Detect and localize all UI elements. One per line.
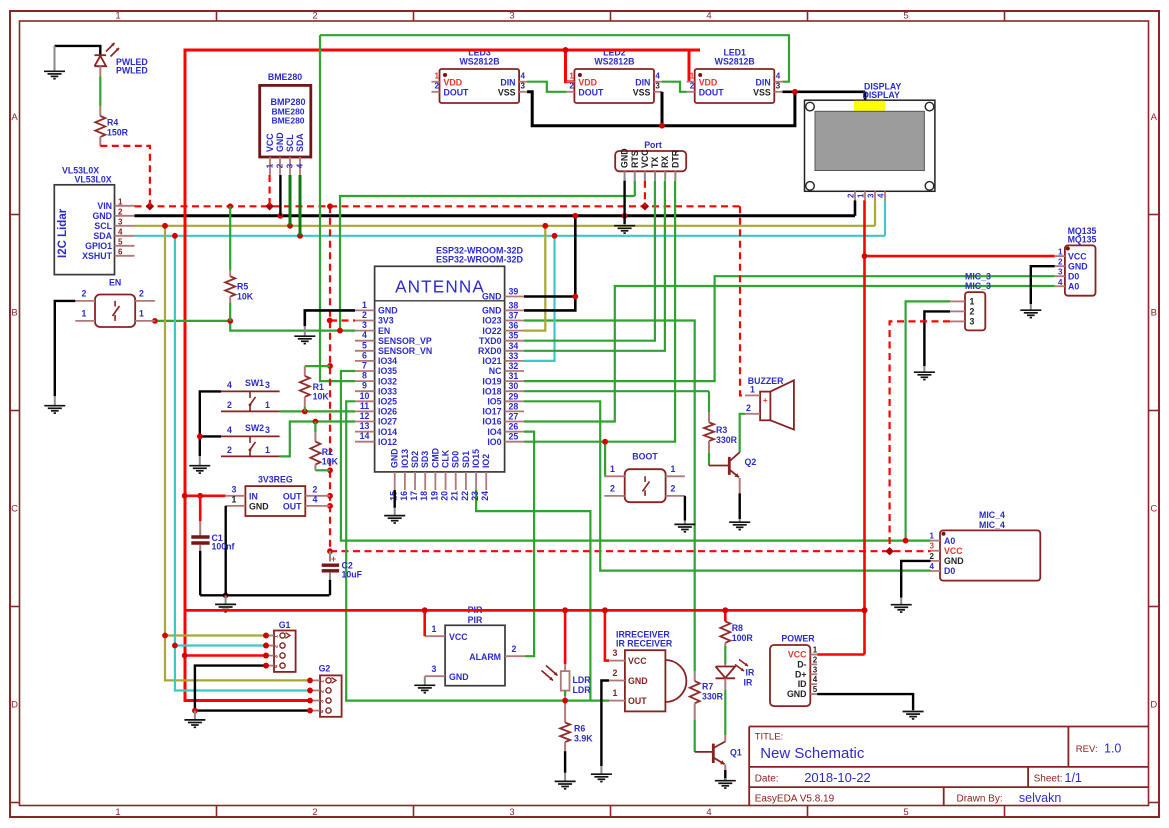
svg-text:1: 1 <box>690 72 695 81</box>
svg-text:VCC: VCC <box>628 656 647 666</box>
svg-text:IO27: IO27 <box>378 417 397 427</box>
wire black POWER GND to ground <box>817 694 913 710</box>
svg-text:330R: 330R <box>716 435 738 445</box>
svg-text:GND: GND <box>1068 261 1088 271</box>
svg-text:1: 1 <box>232 495 237 505</box>
svg-text:IO4: IO4 <box>487 427 501 437</box>
svg-text:C: C <box>1150 504 1157 515</box>
wire green IO25 to LDR node <box>346 401 609 700</box>
svg-text:SCL: SCL <box>285 134 295 152</box>
resistor R2 10K <box>314 422 316 433</box>
svg-text:34: 34 <box>509 341 519 351</box>
svg-text:BOOT: BOOT <box>632 452 658 462</box>
svg-text:A0: A0 <box>1068 281 1079 291</box>
svg-text:DTR: DTR <box>670 149 680 168</box>
wire dashed R4 to VCC bus <box>100 146 150 206</box>
svg-text:SD0: SD0 <box>451 451 461 468</box>
svg-text:3: 3 <box>118 217 123 226</box>
svg-text:10K: 10K <box>322 457 339 467</box>
svg-text:6: 6 <box>362 350 367 360</box>
wire PWLED to R4 <box>99 76 101 106</box>
wire olive SCL to IO22 <box>524 226 545 331</box>
wire green IO18 to R3 <box>524 390 709 392</box>
svg-text:XSHUT: XSHUT <box>82 251 112 261</box>
svg-text:New Schematic: New Schematic <box>760 745 865 762</box>
svg-text:3: 3 <box>970 316 975 326</box>
ground PIR GND <box>424 676 426 685</box>
svg-text:32: 32 <box>509 361 519 371</box>
svg-text:2: 2 <box>690 82 695 91</box>
wire olive to G connectors <box>165 226 310 681</box>
svg-text:1: 1 <box>139 309 144 319</box>
svg-text:NC: NC <box>489 366 502 376</box>
svg-text:B: B <box>11 308 17 319</box>
svg-text:ESP32-WROOM-32D: ESP32-WROOM-32D <box>436 255 524 265</box>
svg-text:1: 1 <box>266 163 275 168</box>
svg-text:IO12: IO12 <box>378 437 397 447</box>
wire black G1 pin4 to G2 pin4 and ground <box>195 666 310 711</box>
svg-text:9: 9 <box>362 381 367 391</box>
svg-text:VCC: VCC <box>788 650 807 660</box>
svg-text:13: 13 <box>360 421 370 431</box>
wire green Port RX to RXD0 <box>524 181 665 351</box>
wire green IO5 to MIC_4 D0 <box>524 401 931 570</box>
svg-text:4: 4 <box>776 72 781 81</box>
wire green BOOT pin1 drop <box>604 442 606 477</box>
svg-text:ID: ID <box>798 679 807 689</box>
wire ESP pin15 GND to ground <box>394 490 396 508</box>
svg-text:3: 3 <box>930 542 935 551</box>
wire SDA cyan bus <box>135 235 886 237</box>
ESP32 pin 35 TXD0 <box>505 340 524 342</box>
wire dashed 3V3 horizontal to MIC_4 VCC <box>330 550 931 552</box>
svg-text:3: 3 <box>432 664 437 674</box>
svg-text:SD2: SD2 <box>410 451 420 468</box>
svg-text:SDA: SDA <box>295 133 305 152</box>
ESP32 pin 9 IO33 <box>355 390 375 392</box>
resistor R1 10K <box>305 365 330 367</box>
svg-text:D: D <box>1150 700 1157 711</box>
wire dashed 3V3 vertical x330 <box>329 206 331 551</box>
svg-text:PWLED: PWLED <box>116 66 148 76</box>
wire green LED3 DIN to LED2 DOUT <box>527 82 566 92</box>
svg-text:38: 38 <box>509 300 519 310</box>
svg-text:2: 2 <box>613 668 618 678</box>
photoresistor LDR <box>561 671 570 691</box>
svg-text:20: 20 <box>440 491 450 501</box>
svg-text:3: 3 <box>867 193 876 198</box>
svg-text:IO15: IO15 <box>471 449 481 468</box>
svg-text:G2: G2 <box>319 664 331 674</box>
wire green IO15 to IR OUT net <box>476 490 590 701</box>
svg-text:4: 4 <box>706 807 711 818</box>
svg-text:IO19: IO19 <box>482 376 501 386</box>
svg-text:19: 19 <box>429 491 439 501</box>
resistor R8 100R <box>724 610 727 621</box>
svg-text:330R: 330R <box>702 692 724 702</box>
ESP32 pin 22 SD1 <box>465 472 467 490</box>
svg-text:2: 2 <box>1058 258 1063 267</box>
svg-text:2: 2 <box>227 400 232 410</box>
svg-text:SDA: SDA <box>93 231 112 241</box>
svg-text:EN: EN <box>109 278 121 288</box>
svg-text:24: 24 <box>480 491 490 501</box>
svg-text:36: 36 <box>509 321 519 331</box>
svg-text:3: 3 <box>286 163 295 168</box>
svg-text:33: 33 <box>509 351 519 361</box>
wire BME280 GND <box>279 175 281 216</box>
svg-text:GND: GND <box>378 306 398 316</box>
svg-text:WS2812B: WS2812B <box>594 56 634 66</box>
svg-text:1: 1 <box>435 72 440 81</box>
wire green IO23 to R7 <box>524 321 695 672</box>
svg-text:WS2812B: WS2812B <box>459 56 499 66</box>
ESP32 pin 37 IO23 <box>505 320 524 322</box>
wire green MQ135 D0 to IO19 <box>524 276 1055 381</box>
svg-text:12: 12 <box>360 411 370 421</box>
wire black MQ135 GND to ground <box>1031 266 1055 304</box>
svg-text:IR: IR <box>746 668 755 678</box>
svg-text:1: 1 <box>432 624 437 634</box>
wire red branch LED2 VDD <box>566 50 575 82</box>
wire SCL olive bus <box>135 225 876 227</box>
svg-text:2: 2 <box>610 483 615 493</box>
svg-text:D0: D0 <box>944 566 955 576</box>
svg-text:RXD0: RXD0 <box>478 346 502 356</box>
svg-text:VDD: VDD <box>444 77 463 87</box>
ESP32 pin 23 IO15 <box>475 472 477 490</box>
svg-text:RX: RX <box>660 156 670 168</box>
svg-text:IO18: IO18 <box>482 386 501 396</box>
ESP32 pin 18 SD3 <box>424 472 426 490</box>
svg-text:D+: D+ <box>795 669 807 679</box>
svg-text:1: 1 <box>115 11 120 22</box>
svg-text:VCC: VCC <box>265 133 275 152</box>
wire black Q1 emitter to ground <box>724 770 726 780</box>
svg-text:PIR: PIR <box>468 615 483 625</box>
svg-text:2: 2 <box>139 289 144 299</box>
wire green LED2 DIN to LED1 DOUT <box>662 82 687 92</box>
svg-text:2: 2 <box>82 289 87 299</box>
svg-text:2: 2 <box>512 644 517 654</box>
ESP32 pin 27 IO16 <box>505 421 524 423</box>
svg-text:A: A <box>11 112 18 123</box>
svg-text:R8: R8 <box>732 623 743 633</box>
wire red G1 pin3 <box>185 654 266 657</box>
svg-text:3: 3 <box>655 82 660 91</box>
wire black R6 to ground <box>564 751 566 773</box>
LED IR <box>724 664 726 667</box>
wire red horizontal lower rail <box>185 609 865 612</box>
svg-text:22: 22 <box>460 491 470 501</box>
svg-text:IO34: IO34 <box>378 356 397 366</box>
svg-text:DOUT: DOUT <box>578 87 604 97</box>
svg-text:VDD: VDD <box>699 77 718 87</box>
svg-text:2: 2 <box>569 82 574 91</box>
svg-text:1: 1 <box>274 635 280 638</box>
svg-text:SD1: SD1 <box>461 451 471 468</box>
transistor Q2 <box>709 465 729 467</box>
ESP32 pin 10 IO25 <box>355 400 375 402</box>
svg-text:Date:: Date: <box>755 774 779 785</box>
svg-text:4: 4 <box>118 227 123 236</box>
svg-text:BME280: BME280 <box>268 72 302 82</box>
svg-text:6: 6 <box>118 247 123 256</box>
svg-text:3: 3 <box>509 807 514 818</box>
ESP32 pin 32 NC <box>505 370 524 372</box>
svg-text:SENSOR_VN: SENSOR_VN <box>378 346 432 356</box>
svg-text:3: 3 <box>265 425 270 435</box>
svg-text:10uF: 10uF <box>342 570 363 580</box>
svg-text:SCL: SCL <box>94 221 112 231</box>
svg-text:GND: GND <box>482 306 502 316</box>
svg-text:2: 2 <box>276 163 285 168</box>
svg-text:3: 3 <box>613 648 618 658</box>
svg-text:3: 3 <box>320 700 326 703</box>
svg-text:R7: R7 <box>702 682 713 692</box>
svg-text:IR RECEIVER: IR RECEIVER <box>616 638 673 648</box>
svg-text:4: 4 <box>296 163 305 168</box>
wire IR cathode to Q1 <box>724 678 726 690</box>
svg-text:2: 2 <box>320 690 326 693</box>
svg-text:1: 1 <box>671 464 676 474</box>
svg-text:2: 2 <box>118 207 123 216</box>
ESP32 pin 21 SD0 <box>455 472 457 490</box>
wire black ESP GND pins to bus <box>524 295 575 298</box>
wire green LED DIN top <box>320 35 789 81</box>
svg-text:GND: GND <box>449 672 469 682</box>
svg-text:4: 4 <box>706 11 711 22</box>
wire red rail overlay top <box>430 49 700 52</box>
wire dashed VCC to buzzer pin1 <box>740 206 745 395</box>
svg-text:1: 1 <box>970 296 975 306</box>
svg-text:D-: D- <box>797 659 806 669</box>
svg-text:2018-10-22: 2018-10-22 <box>804 770 871 785</box>
svg-text:SD3: SD3 <box>420 451 430 468</box>
svg-text:4: 4 <box>655 72 660 81</box>
ESP32 pin 30 IO18 <box>505 390 524 392</box>
svg-text:4: 4 <box>930 562 935 571</box>
wire cyan display pin4 to SDA bus <box>884 200 886 235</box>
svg-text:DISPLAY: DISPLAY <box>863 90 900 100</box>
svg-text:37: 37 <box>509 311 519 321</box>
svg-text:IO35: IO35 <box>378 366 397 376</box>
svg-text:WS2812B: WS2812B <box>715 56 755 66</box>
wire red rail overlay lower <box>185 609 865 612</box>
svg-text:2: 2 <box>312 11 317 22</box>
svg-text:4: 4 <box>1058 278 1063 287</box>
wire black 3V3REG GND down <box>224 506 226 595</box>
wire BME280 SCL <box>289 175 292 226</box>
wire cyan to G connectors <box>175 236 310 691</box>
wire dashed MIC_3 pin3 to 3V3 <box>890 321 950 551</box>
svg-text:35: 35 <box>509 331 519 341</box>
svg-text:IO21: IO21 <box>482 356 501 366</box>
wire red PIR VCC <box>423 610 426 636</box>
wire red LDR top <box>564 610 567 664</box>
svg-text:R1: R1 <box>313 382 324 392</box>
svg-text:3V3REG: 3V3REG <box>258 475 293 485</box>
svg-text:I2C Lidar: I2C Lidar <box>57 208 69 258</box>
svg-text:2: 2 <box>970 306 975 316</box>
ESP32 pin 12 IO27 <box>355 421 375 423</box>
ESP32 pin 20 CLK <box>445 472 447 490</box>
svg-text:IO2: IO2 <box>481 454 491 468</box>
svg-text:TITLE:: TITLE: <box>755 732 784 743</box>
wire green SW1 to IO26 <box>280 410 355 412</box>
wire black MIC_4 GND to ground <box>901 561 930 598</box>
svg-text:REV:: REV: <box>1076 744 1098 755</box>
svg-text:27: 27 <box>509 412 519 422</box>
wire olive display pin3 to SCL bus <box>874 200 876 225</box>
ESP32 pin 7 IO35 <box>355 370 375 372</box>
svg-text:IO26: IO26 <box>378 407 397 417</box>
svg-text:MIC_4: MIC_4 <box>979 510 1005 520</box>
svg-text:LDR: LDR <box>573 675 592 685</box>
svg-text:1: 1 <box>82 309 87 319</box>
svg-text:TXD0: TXD0 <box>479 336 502 346</box>
svg-text:2: 2 <box>746 403 751 413</box>
svg-text:IO13: IO13 <box>400 449 410 468</box>
ESP32 pin 3 EN <box>355 330 375 332</box>
ESP32 pin 19 CMD <box>434 472 436 490</box>
ground ESP pin1 <box>304 326 306 336</box>
svg-text:1: 1 <box>265 445 270 455</box>
wire green Port RTS <box>634 181 636 196</box>
svg-text:EasyEDA V5.8.19: EasyEDA V5.8.19 <box>755 794 835 805</box>
svg-text:R6: R6 <box>574 724 585 734</box>
svg-text:4: 4 <box>877 193 886 198</box>
svg-text:IO0: IO0 <box>487 437 501 447</box>
wire black Q2 emitter to ground <box>739 493 741 519</box>
wire green Port TX to TXD0 <box>524 181 655 341</box>
svg-text:VSS: VSS <box>753 87 771 97</box>
svg-text:SW2: SW2 <box>245 423 264 433</box>
svg-text:+: + <box>331 554 336 564</box>
svg-text:MQ135: MQ135 <box>1068 235 1097 245</box>
ESP32 pin 28 IO17 <box>505 410 524 412</box>
ESP32 pin 1 GND <box>355 309 375 311</box>
svg-text:IR: IR <box>744 678 753 688</box>
svg-text:EN: EN <box>378 326 390 336</box>
svg-text:1: 1 <box>320 680 326 683</box>
svg-text:3: 3 <box>265 380 270 390</box>
svg-text:IO14: IO14 <box>378 427 397 437</box>
svg-text:10K: 10K <box>237 292 254 302</box>
wire green MIC_3 pin1 to A0 net <box>906 301 950 540</box>
svg-text:4: 4 <box>227 380 232 390</box>
svg-text:GND: GND <box>249 502 269 512</box>
svg-text:14: 14 <box>360 431 370 441</box>
svg-text:DIN: DIN <box>500 77 515 87</box>
ESP32 pin 11 IO26 <box>355 410 375 412</box>
svg-text:21: 21 <box>450 491 460 501</box>
svg-text:4: 4 <box>313 495 318 505</box>
svg-text:1: 1 <box>750 385 755 395</box>
svg-text:R3: R3 <box>716 425 727 435</box>
ESP32 pin 15 GND <box>394 472 396 490</box>
junction dots G1 <box>162 633 168 639</box>
svg-text:ANTENNA: ANTENNA <box>395 277 485 297</box>
junction dots on buses <box>146 202 154 210</box>
ESP32 pin 26 IO4 <box>505 431 524 433</box>
svg-text:VCC: VCC <box>1068 251 1087 261</box>
svg-text:2: 2 <box>930 552 935 561</box>
svg-text:OUT: OUT <box>283 491 302 501</box>
ESP32 pin 38 GND <box>505 309 524 311</box>
svg-text:2: 2 <box>847 193 856 198</box>
wire black SW1/SW2 pin4 to ground <box>200 391 221 456</box>
wire green IO35 to MIC_4 A0 <box>341 371 931 541</box>
wire red VCC to MQ135 <box>865 255 1055 258</box>
svg-text:TX: TX <box>650 157 660 168</box>
svg-text:Q2: Q2 <box>745 457 757 467</box>
wire green buzzer pin2 to Q2 collector <box>740 414 745 452</box>
ESP32 pin 13 IO14 <box>355 431 375 433</box>
wire black C1-C2 ground rail <box>200 594 329 596</box>
transistor Q1 <box>695 751 714 753</box>
svg-text:3.9K: 3.9K <box>574 734 593 744</box>
svg-text:3V3: 3V3 <box>378 316 394 326</box>
svg-text:VSS: VSS <box>633 87 651 97</box>
svg-text:1: 1 <box>265 400 270 410</box>
svg-text:GND: GND <box>628 676 648 686</box>
svg-text:5: 5 <box>903 807 908 818</box>
capacitor C1 100nf <box>199 496 202 521</box>
resistor R5 10K <box>229 206 231 270</box>
resistor R7 330R <box>694 671 696 681</box>
svg-text:A: A <box>1151 112 1158 123</box>
DISPLAY pins <box>854 191 856 200</box>
svg-text:1: 1 <box>1058 248 1063 257</box>
svg-text:8: 8 <box>362 371 367 381</box>
svg-text:100nf: 100nf <box>212 542 235 552</box>
svg-text:1/1: 1/1 <box>1065 771 1082 785</box>
resistor R6 3.9K <box>560 723 570 743</box>
svg-text:VCC: VCC <box>944 546 963 556</box>
svg-text:SW1: SW1 <box>245 378 264 388</box>
svg-text:2: 2 <box>813 655 818 664</box>
svg-text:2: 2 <box>227 445 232 455</box>
wire dashed 3V3 to ESP 3V3 pin <box>330 319 355 321</box>
svg-text:1: 1 <box>813 646 818 655</box>
svg-text:28: 28 <box>509 401 519 411</box>
wire dashed Port VCC <box>644 181 646 207</box>
svg-text:BME280: BME280 <box>271 116 304 126</box>
wire LDR bottom node <box>564 691 566 696</box>
svg-text:3: 3 <box>274 655 280 658</box>
wire cyan SDA to IO21 <box>524 236 555 361</box>
svg-text:3: 3 <box>362 320 367 330</box>
svg-text:CMD: CMD <box>430 448 440 468</box>
svg-text:DIN: DIN <box>635 77 650 87</box>
svg-text:GPIO1: GPIO1 <box>85 241 112 251</box>
svg-text:31: 31 <box>509 371 519 381</box>
svg-text:25: 25 <box>509 432 519 442</box>
svg-text:MIC_3: MIC_3 <box>965 281 991 291</box>
svg-text:GND: GND <box>944 556 964 566</box>
svg-text:IO22: IO22 <box>482 326 501 336</box>
svg-text:DIN: DIN <box>756 77 771 87</box>
wire GND black bus <box>135 214 856 217</box>
svg-text:2: 2 <box>435 82 440 91</box>
svg-text:GND: GND <box>787 689 807 699</box>
svg-text:18: 18 <box>419 491 429 501</box>
svg-text:VCC: VCC <box>449 632 468 642</box>
ESP32 pin 4 SENSOR_VP <box>355 340 375 342</box>
wire red IRRECEIVER VCC <box>605 610 609 660</box>
svg-text:Drawn By:: Drawn By: <box>957 794 1003 805</box>
